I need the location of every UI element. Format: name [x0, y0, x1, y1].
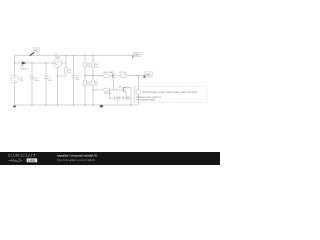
junction node C3 bottom	[73, 104, 74, 105]
junction node R5 lower	[92, 89, 93, 90]
wire lower node H5	[93, 89, 103, 91]
junction node C2 top	[45, 62, 46, 63]
ground mid	[100, 104, 104, 108]
wire Q2 emitter down	[113, 78, 115, 90]
ground at V1	[13, 106, 17, 108]
resistor R7	[120, 74, 127, 78]
net flag OUT2	[143, 75, 147, 78]
annotation box	[135, 87, 207, 103]
wire Q3 collector arm	[122, 86, 131, 88]
junction node R2/R3 mid	[84, 75, 85, 76]
resistor R6	[103, 74, 110, 78]
wire R4 branch	[92, 56, 94, 63]
diode D1	[22, 62, 25, 65]
junction node Q2 base	[113, 75, 114, 76]
wire rail B	[15, 62, 53, 64]
resistor R8	[103, 88, 110, 92]
wire right drop to rail	[130, 87, 132, 105]
wire cap row drop	[108, 90, 110, 98]
footer bar	[0, 152, 220, 165]
svg-text:signality / vreg and schmitt 0: signality / vreg and schmitt 01	[57, 154, 97, 158]
wire C3 branch	[73, 56, 75, 76]
junction node rail B / V1	[14, 62, 15, 63]
capacitor C2	[44, 76, 48, 78]
resistor R2	[83, 62, 86, 67]
wire C2 branch	[45, 63, 47, 76]
junction node R5 bottom	[92, 104, 93, 105]
svg-text:LAB: LAB	[28, 159, 36, 163]
voltage source V1	[11, 75, 19, 83]
junction node Q1 emitter / R1	[57, 75, 58, 76]
logo wire glyph	[9, 159, 23, 162]
junction node R1 link rail A	[65, 55, 66, 56]
voltmeter VM1	[136, 90, 141, 95]
junction node C1 bottom	[31, 104, 32, 105]
wire R1 bottom to emitter	[58, 74, 67, 76]
net flag OUT top	[132, 55, 136, 58]
wire VM1 drop	[137, 76, 139, 90]
wire Q3 emitter	[125, 92, 127, 98]
wire cap row H6	[109, 97, 114, 99]
junction node VM1 top	[138, 75, 139, 76]
transistor Q3	[122, 87, 127, 92]
junction node R3 bottom	[84, 104, 85, 105]
wire rail A top	[15, 56, 133, 76]
wire Q1 collector to rail A	[62, 56, 66, 64]
wire V1 bottom	[14, 83, 16, 105]
wire R1 top	[65, 63, 67, 67]
switch SW1	[30, 52, 34, 55]
svg-text:http://circuitlab.com/c/mq84fz: http://circuitlab.com/c/mq84fz	[57, 158, 96, 162]
junction node R2 top rail A	[84, 55, 85, 56]
wire Q1 emitter down	[57, 68, 59, 105]
capacitor C1	[30, 76, 34, 78]
capacitor C5	[124, 96, 126, 99]
wire C1 branch	[31, 63, 33, 76]
capacitor C4	[114, 96, 116, 99]
junction node Q1 emitter rail	[57, 104, 58, 105]
switch SW1 label box	[33, 48, 40, 52]
junction node C1 top	[31, 62, 32, 63]
wire mid node H4	[85, 75, 103, 77]
resistor R4	[91, 62, 94, 68]
transistor Q2	[112, 73, 116, 78]
junction node C3 top rail A	[73, 55, 74, 56]
wire bottom ground rail	[15, 104, 139, 106]
junction node Q3 drop rail	[130, 104, 131, 105]
junction node R4/R5 mid	[92, 75, 93, 76]
resistor R3	[83, 80, 86, 85]
junction node C2 bottom	[45, 104, 46, 105]
capacitor C3	[72, 75, 76, 77]
junction node R8 elbow	[109, 89, 110, 90]
resistor R5	[91, 80, 94, 85]
junction node R4 top rail A	[92, 55, 93, 56]
resistor R1	[64, 67, 67, 74]
logo LAB	[27, 158, 38, 162]
transistor Q1	[53, 59, 62, 68]
wire R2 branch	[84, 56, 86, 63]
